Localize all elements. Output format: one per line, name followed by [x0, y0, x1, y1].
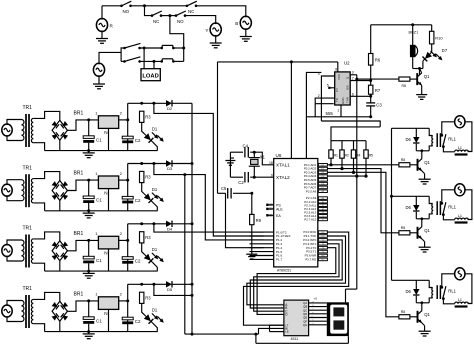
- svg-text:C2: C2: [135, 198, 141, 203]
- svg-text:LE: LE: [285, 330, 289, 334]
- capacitor C2: [122, 196, 133, 199]
- AC source (load supply): [93, 63, 104, 76]
- pin stub P1.3: [250, 243, 274, 245]
- wire: [465, 274, 472, 304]
- svg-text:C4: C4: [243, 144, 249, 149]
- svg-text:18: 18: [269, 161, 273, 165]
- wire: [59, 261, 61, 271]
- wire: [392, 195, 430, 197]
- ground: [88, 151, 90, 153]
- wire: [128, 283, 166, 285]
- wire: [127, 224, 129, 271]
- wire: [154, 284, 192, 295]
- wire: [345, 289, 347, 302]
- svg-text:NC: NC: [188, 9, 194, 14]
- pin stub EA: [269, 214, 274, 216]
- AC source (section TR1): [2, 184, 12, 196]
- wire: [251, 225, 253, 255]
- wire: [33, 324, 44, 332]
- transistor Q1 (relay 2 driver): [417, 227, 419, 239]
- wire: [153, 202, 158, 210]
- wire: [353, 158, 355, 172]
- resistor R3: [140, 232, 144, 243]
- wire: [161, 15, 176, 17]
- capacitor C4: [244, 147, 246, 158]
- node bus (D2-D5 common): [191, 103, 193, 334]
- wire: [131, 5, 188, 7]
- transformer TR1: [22, 120, 24, 141]
- wire: [119, 119, 128, 121]
- wire: [170, 16, 184, 62]
- wire: [327, 172, 399, 316]
- capacitor C3: [366, 102, 375, 104]
- wire: [140, 60, 162, 62]
- wire: [410, 164, 418, 166]
- wire: [465, 122, 472, 152]
- svg-text:CV: CV: [335, 88, 339, 92]
- wire: [67, 240, 98, 250]
- wire: [142, 183, 145, 194]
- resistor R8 (relay 3 base): [399, 315, 410, 319]
- wire: [270, 324, 284, 326]
- relay coil RL1 (relay 3): [429, 280, 432, 287]
- capacitor C1: [88, 180, 90, 196]
- svg-text:D7: D7: [442, 48, 448, 53]
- pin stub PSEN: [269, 204, 274, 206]
- svg-text:TR1: TR1: [23, 226, 33, 232]
- 7-segment display: [327, 302, 349, 336]
- svg-text:ALE: ALE: [276, 208, 283, 212]
- svg-text:D4: D4: [167, 227, 173, 232]
- wire: [67, 120, 98, 130]
- wire: [416, 218, 429, 220]
- pin stub P1.7: [250, 258, 274, 260]
- svg-text:LOAD: LOAD: [142, 73, 158, 79]
- wire: [244, 232, 349, 325]
- svg-text:X1: X1: [260, 155, 266, 160]
- AC source B (phase B): [240, 16, 251, 29]
- wire: [422, 239, 425, 242]
- wire: [347, 336, 349, 343]
- wire: [346, 288, 357, 290]
- resistor R3: [140, 111, 144, 122]
- wire: [67, 180, 98, 190]
- svg-text:C1: C1: [96, 198, 102, 203]
- svg-text:C3: C3: [376, 103, 382, 108]
- wire: [173, 47, 183, 49]
- wire: [315, 98, 335, 117]
- svg-text:D6: D6: [406, 137, 412, 142]
- wire: [185, 16, 215, 25]
- relay contact (relay 1): [440, 134, 443, 137]
- transformer TR1: [22, 240, 24, 261]
- svg-text:NO: NO: [177, 19, 184, 24]
- wire: [185, 333, 259, 335]
- wire: [153, 323, 158, 331]
- wire: [327, 169, 399, 233]
- timer U2 555: [335, 72, 351, 105]
- svg-text:C2: C2: [135, 319, 141, 324]
- svg-text:N: N: [104, 130, 107, 135]
- wire: [145, 6, 153, 16]
- svg-text:C2: C2: [238, 180, 244, 185]
- wire: [33, 292, 60, 301]
- svg-text:BUZ1: BUZ1: [409, 31, 419, 35]
- wire: [442, 122, 455, 135]
- wire: [365, 158, 367, 176]
- wire: [422, 171, 425, 174]
- ground: [96, 38, 108, 40]
- wire: [327, 175, 366, 177]
- svg-text:P1.7: P1.7: [276, 258, 283, 262]
- svg-text:P2.0:A8: P2.0:A8: [306, 189, 317, 193]
- svg-text:R1: R1: [334, 153, 338, 157]
- svg-text:R6: R6: [375, 58, 381, 63]
- voltage regulator (section TR1): [98, 116, 118, 129]
- wire: [391, 128, 393, 280]
- svg-text:NO: NO: [123, 9, 130, 14]
- capacitor C1: [88, 240, 90, 256]
- wire: [305, 117, 307, 159]
- wire: [226, 193, 264, 247]
- capacitor C2: [122, 136, 133, 139]
- LED D1: [142, 131, 155, 144]
- wire: [410, 316, 418, 318]
- wire: [154, 164, 264, 240]
- svg-text:L1: L1: [458, 214, 462, 218]
- wire: [45, 150, 158, 152]
- LED D1: [142, 192, 155, 205]
- inductor L1 (relay 2): [455, 218, 469, 220]
- resistor R9: [250, 214, 254, 224]
- wire: [371, 24, 432, 26]
- svg-text:XTAL1: XTAL1: [276, 163, 290, 168]
- bridge rectifier BR1: [52, 181, 67, 201]
- wire: [33, 111, 60, 120]
- svg-text:C5: C5: [221, 186, 227, 191]
- wire: [321, 76, 334, 121]
- wire: [7, 301, 22, 306]
- svg-text:RL1: RL1: [448, 288, 456, 293]
- wire: [370, 94, 372, 103]
- svg-text:P2.7:A15: P2.7:A15: [304, 218, 316, 222]
- wire: [257, 248, 336, 315]
- wire: [153, 142, 158, 150]
- svg-text:R10: R10: [435, 36, 443, 41]
- switch NO (row 2 right): [175, 14, 178, 17]
- wire: [7, 240, 22, 245]
- wire: [412, 57, 414, 69]
- wire: [153, 61, 155, 68]
- wire: [370, 65, 372, 85]
- resistor R8 (relay 1 base): [399, 163, 410, 167]
- wire: [7, 256, 22, 261]
- svg-text:Y: Y: [205, 28, 208, 33]
- svg-text:D2: D2: [167, 106, 173, 111]
- ground: [416, 94, 427, 96]
- svg-text:R3: R3: [145, 115, 151, 120]
- svg-text:R8: R8: [401, 158, 405, 162]
- svg-text:TR: TR: [335, 98, 339, 102]
- transformer TR1: [22, 180, 24, 201]
- wire: [218, 61, 338, 63]
- wire: [217, 62, 219, 193]
- wire: [108, 189, 110, 211]
- wire: [340, 105, 342, 117]
- svg-text:R8: R8: [401, 226, 405, 230]
- wire: [172, 223, 192, 225]
- svg-text:U6: U6: [276, 153, 282, 158]
- wire: [101, 30, 103, 38]
- crystal X1: [253, 152, 255, 157]
- wire: [119, 239, 128, 241]
- resistor R8 (buzzer driver): [399, 77, 410, 81]
- svg-text:BR1: BR1: [74, 110, 84, 116]
- wire: [442, 190, 455, 203]
- resistor R3: [140, 171, 144, 182]
- voltage regulator (section TR1): [98, 297, 118, 310]
- diode D5: [166, 281, 172, 287]
- svg-text:D6: D6: [406, 205, 412, 210]
- pin stub P1.5: [250, 251, 274, 253]
- wire: [229, 152, 231, 177]
- wire: [218, 192, 226, 194]
- wire: [443, 215, 454, 220]
- wire: [128, 223, 166, 225]
- relay contact (relay 3): [440, 286, 443, 289]
- wire: [7, 180, 22, 185]
- wire: [172, 283, 192, 285]
- wire: [331, 140, 366, 142]
- AC source (section TR1): [2, 244, 12, 256]
- wire: [327, 164, 399, 166]
- wire: [67, 301, 98, 311]
- wire: [101, 6, 103, 20]
- AC source Y (phase Y): [210, 23, 221, 36]
- bridge rectifier BR1: [52, 301, 67, 321]
- wire: [108, 128, 110, 150]
- ground: [88, 211, 90, 213]
- LOAD box: [141, 69, 160, 81]
- relay contact (relay 2): [440, 202, 443, 205]
- svg-text:C1: C1: [96, 258, 102, 263]
- pin stub P1.4: [250, 247, 274, 249]
- ground: [210, 42, 222, 44]
- wire: [172, 102, 192, 104]
- wire: [306, 72, 321, 116]
- svg-text:L1: L1: [458, 298, 462, 302]
- svg-text:D5: D5: [167, 287, 173, 292]
- resistor R1: [330, 141, 332, 150]
- AC load source (relay 1): [455, 116, 465, 128]
- wire: [245, 28, 247, 36]
- wire: [108, 249, 110, 271]
- diode D2: [166, 100, 172, 106]
- wire: [350, 80, 371, 82]
- wire: [443, 299, 454, 304]
- inductor L1 (relay 1): [455, 150, 469, 152]
- wire: [7, 316, 22, 321]
- svg-text:C1: C1: [96, 138, 102, 143]
- ground: [88, 271, 90, 273]
- LED D7: [421, 50, 434, 63]
- resistor R10: [431, 25, 433, 32]
- svg-text:555: 555: [326, 111, 334, 116]
- wire: [7, 120, 22, 125]
- svg-text:R8: R8: [402, 84, 406, 88]
- wire: [154, 103, 264, 236]
- svg-text:R3: R3: [145, 235, 151, 240]
- wire: [45, 270, 158, 272]
- wire: [421, 85, 423, 94]
- wire: [250, 240, 342, 308]
- capacitor C2 (crystal): [244, 172, 246, 183]
- svg-text:BR1: BR1: [74, 171, 84, 177]
- wire: [413, 68, 423, 70]
- wire: [416, 302, 429, 304]
- wire: [421, 303, 423, 311]
- pin stub P1.0: [250, 231, 274, 233]
- wire: [315, 103, 334, 105]
- svg-text:R8: R8: [401, 310, 405, 314]
- capacitor C2: [122, 257, 133, 260]
- ground: [246, 253, 257, 255]
- wire: [392, 127, 430, 129]
- transistor Q1 (relay 3 driver): [417, 311, 419, 323]
- svg-text:R9: R9: [256, 218, 262, 223]
- AC load source (relay 3): [455, 268, 465, 280]
- voltage regulator (section TR1): [98, 236, 118, 249]
- wire: [121, 60, 124, 62]
- wire: [270, 331, 284, 333]
- svg-text:TR1: TR1: [23, 105, 33, 111]
- pin stub P1.6: [250, 255, 274, 257]
- contact (relay output, pole 1): [160, 47, 163, 50]
- wire: [233, 192, 252, 194]
- svg-text:3: 3: [352, 70, 354, 74]
- svg-text:VCC: VCC: [337, 74, 341, 80]
- svg-text:C1: C1: [96, 319, 102, 324]
- svg-text:R7: R7: [375, 88, 381, 93]
- svg-text:XTAL2: XTAL2: [276, 175, 290, 180]
- wire: [33, 143, 44, 151]
- wire: [59, 200, 61, 210]
- wire: [250, 152, 274, 165]
- resistor R2: [341, 141, 343, 150]
- wire: [119, 300, 128, 302]
- resistor R4: [353, 141, 355, 150]
- wire: [108, 309, 110, 331]
- resistor R3: [140, 292, 144, 303]
- resistor R6: [369, 54, 373, 66]
- wire: [127, 164, 129, 211]
- wire: [127, 284, 129, 331]
- svg-text:RD: RD: [321, 259, 325, 261]
- svg-text:D1: D1: [152, 247, 158, 252]
- wire: [33, 263, 44, 271]
- wire: [341, 158, 343, 168]
- wire: [422, 323, 425, 326]
- wire: [59, 321, 61, 331]
- wire: [356, 75, 358, 289]
- AC load source (relay 2): [455, 184, 465, 196]
- wire: [422, 61, 424, 69]
- wire: [251, 193, 253, 214]
- bridge rectifier BR1: [52, 120, 67, 140]
- ground: [419, 246, 431, 248]
- svg-text:Q1: Q1: [424, 312, 430, 317]
- wire: [172, 163, 192, 165]
- switch NC (row 2 left): [151, 14, 154, 17]
- svg-text:R3: R3: [145, 296, 151, 301]
- svg-text:L1: L1: [458, 146, 462, 150]
- wire: [153, 263, 158, 271]
- svg-text:TR1: TR1: [23, 286, 33, 292]
- wire: [45, 331, 158, 333]
- svg-text:D3: D3: [167, 166, 173, 171]
- diode D6 (relay 1 flyback): [415, 128, 417, 137]
- wire: [370, 106, 372, 117]
- AC source (section TR1): [2, 305, 12, 317]
- wire: [33, 172, 60, 181]
- diode D3: [166, 160, 172, 166]
- svg-text:RL1: RL1: [448, 204, 456, 209]
- capacitor C2: [122, 317, 133, 320]
- wire: [421, 151, 423, 159]
- ground: [88, 332, 90, 334]
- svg-text:+5: +5: [314, 296, 318, 300]
- wire: [350, 95, 371, 97]
- svg-text:XD: XD: [321, 232, 324, 234]
- capacitor C5: [227, 188, 229, 199]
- buzzer BUZ1: [412, 25, 414, 46]
- wire: [337, 62, 339, 72]
- wire: [128, 163, 166, 165]
- svg-text:D6: D6: [406, 289, 412, 294]
- ground: [419, 330, 431, 332]
- wire: [99, 52, 121, 64]
- pin stub P1.1: [250, 235, 274, 237]
- wire: [419, 69, 421, 75]
- svg-text:8: 8: [335, 68, 337, 72]
- switch DPST pole 1: [123, 47, 126, 50]
- pin stub ALE: [269, 208, 274, 210]
- microcontroller U6 AT89C51: [274, 159, 318, 267]
- svg-text:XD: XD: [321, 236, 324, 238]
- wire: [33, 203, 44, 211]
- wire: [184, 175, 186, 335]
- resistor R7: [369, 85, 373, 94]
- svg-text:BR1: BR1: [74, 231, 84, 237]
- LED D1: [142, 252, 155, 265]
- wire: [7, 195, 22, 200]
- wire: [154, 224, 264, 232]
- AC source (section TR1): [2, 124, 12, 136]
- wire: [250, 176, 274, 178]
- svg-text:C2: C2: [135, 259, 141, 264]
- wire: [431, 44, 433, 52]
- capacitor C1: [88, 120, 90, 136]
- ground: [230, 157, 234, 159]
- wire: [127, 103, 129, 150]
- wire: [269, 325, 271, 331]
- wire: [142, 122, 145, 133]
- wire: [142, 303, 145, 314]
- wire: [230, 176, 243, 178]
- svg-text:N: N: [104, 190, 107, 195]
- wire: [259, 328, 284, 334]
- contact (relay output, pole 2): [160, 60, 163, 63]
